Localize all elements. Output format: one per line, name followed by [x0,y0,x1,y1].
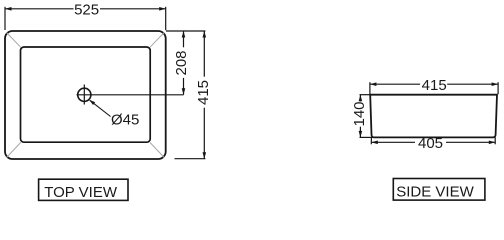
drain vertical centerline [83,85,85,105]
dimension 140 [359,95,373,138]
svg-text:TOP VIEW: TOP VIEW [44,184,118,201]
svg-text:415: 415 [195,80,212,105]
TOP VIEW label box [39,179,128,200]
dimension 415 top view [166,31,206,159]
drain horizontal centerline / 208 extension [77,94,184,96]
dimension 208 [182,31,186,95]
corner blend line bottom-left [7,142,21,157]
drain hole [78,88,91,101]
corner blend line bottom-right [150,142,164,157]
svg-text:SIDE VIEW: SIDE VIEW [396,183,474,200]
leader line for Ø45 [89,100,110,117]
svg-text:415: 415 [422,77,447,94]
svg-text:140: 140 [351,101,368,126]
dimension 525 [5,7,166,30]
corner blend line top-right [150,33,164,48]
top view inner basin [21,47,151,142]
svg-text:208: 208 [173,50,190,75]
side view profile [370,95,497,138]
svg-text:405: 405 [418,135,443,152]
dimension 415 side view [370,82,498,94]
top view outer rim [5,31,166,159]
SIDE VIEW label box [393,179,485,201]
svg-text:525: 525 [74,2,99,19]
svg-text:Ø45: Ø45 [111,112,139,129]
corner blend line top-left [7,33,21,48]
dimension 405 [371,137,495,144]
